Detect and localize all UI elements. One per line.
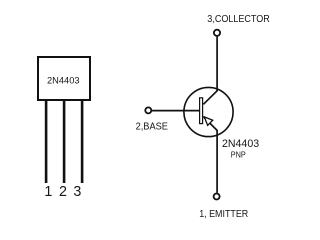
- transistor Q1 package body (TO-92 front view): [38, 57, 90, 100]
- pin 3 lead: [81, 100, 84, 183]
- svg-text:3,COLLECTOR: 3,COLLECTOR: [207, 13, 270, 25]
- emitter terminal node 1: [214, 194, 220, 200]
- svg-text:2,BASE: 2,BASE: [136, 121, 169, 133]
- svg-text:3: 3: [73, 184, 81, 200]
- svg-text:1: 1: [44, 184, 52, 200]
- transistor symbol circle: [184, 87, 233, 136]
- svg-text:2N4403: 2N4403: [222, 138, 259, 150]
- svg-text:1, EMITTER: 1, EMITTER: [199, 209, 248, 221]
- base wire: [152, 110, 200, 112]
- emitter arrow (PNP, pointing to base): [204, 117, 212, 125]
- collector branch (diagonal): [203, 91, 217, 105]
- collector terminal node 3: [214, 30, 220, 36]
- base bar of transistor: [200, 98, 203, 124]
- pin 1 lead: [45, 100, 48, 183]
- pin 2 lead: [63, 100, 66, 183]
- emitter branch (diagonal): [204, 117, 218, 130]
- svg-text:2N4403: 2N4403: [47, 75, 80, 85]
- emitter wire: [216, 130, 218, 193]
- svg-text:PNP: PNP: [231, 150, 246, 160]
- collector wire: [216, 37, 218, 92]
- base terminal node 2: [145, 107, 151, 113]
- svg-text:2: 2: [59, 184, 67, 200]
